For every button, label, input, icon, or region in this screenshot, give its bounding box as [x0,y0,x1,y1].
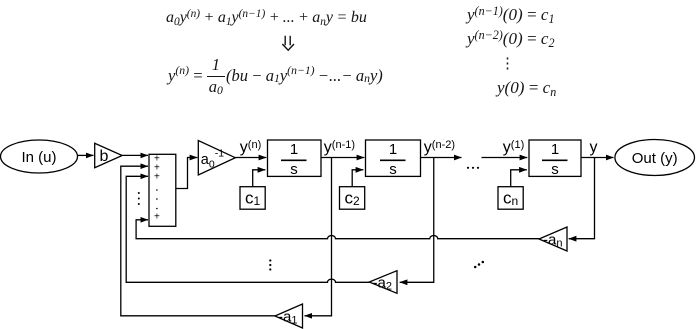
equation: y^(n) = (1/a0)(bu - a1 y^(n-1) - ... - an y) [168,57,383,95]
svg-text:-an: -an [543,232,562,250]
wire break to U3 [482,157,528,159]
gain -an [539,227,567,251]
svg-text:c2: c2 [345,188,361,208]
svg-text:-a1: -a1 [278,309,297,327]
initial condition: y(0) = cn [497,79,556,96]
chain ellipsis dots [467,167,479,169]
wire cn to U3 [511,170,527,187]
gain -a1 [275,304,303,328]
svg-text:y(n-1): y(n-1) [324,139,355,156]
svg-text:+: + [154,172,160,183]
wire -a1 to sum port 2 [121,166,275,316]
svg-text:a0-1: a0-1 [201,148,224,171]
svg-text:Out (y): Out (y) [632,150,678,167]
vertical ellipsis between feedback rows [269,259,271,270]
sum block S1 [149,153,176,226]
svg-text:+: + [154,211,160,222]
svg-text:1: 1 [389,141,397,158]
wire b to sum [122,154,148,156]
output port Out (y) [615,140,695,176]
initial condition: y^(n-2)(0) = c2 [467,30,554,47]
wire In to gain b [78,154,94,156]
svg-text:s: s [551,161,559,178]
svg-text:In (u): In (u) [21,149,56,166]
wire U1 to U2 [321,157,364,159]
vertical ellipsis between initial conditions [500,57,515,72]
IC block c1 [240,187,265,210]
wire c1 to U1 [253,170,266,187]
gain a0^-1 [198,141,235,176]
svg-text:c1: c1 [245,188,261,208]
input port In (u) [1,140,78,173]
wire U2 to break [421,157,462,159]
svg-text:1: 1 [551,141,559,158]
wire U3 to Out [581,157,614,159]
equation: a0 y^(n) + a1 y^(n-1) + ... + an y = bu [166,10,367,26]
diagonal ellipsis between feedback rows right [474,261,484,269]
svg-text:y(n-2): y(n-2) [424,139,455,156]
integrator U3 (1/s) [529,140,581,178]
wire a0^-1 to integrator U1 [235,157,266,159]
svg-text:b: b [100,148,109,165]
svg-text:s: s [389,161,397,178]
ellipsis left of sum inputs [138,192,140,205]
svg-text:cn: cn [503,188,518,208]
wire feedback tap from y^(n-2) down to gain -a2 [400,158,434,283]
wire -a2 to sum port 3 (hops over a1 vertical) [126,176,369,282]
integrator U1 (1/s) [268,140,322,178]
integrator U2 (1/s) [366,140,421,178]
wire sum to gain a0^-1 [176,158,198,189]
gain b [95,143,123,167]
IC block cn [498,187,523,210]
svg-text:y: y [590,139,598,156]
wire c2 to U2 [352,170,363,187]
double down arrow [282,36,294,50]
wire -an to sum port 4 (hops over two verticals) [136,220,539,239]
IC block c2 [340,187,365,210]
svg-text:1: 1 [290,141,298,158]
svg-text:y(1): y(1) [503,139,524,156]
gain -a2 [369,271,397,294]
svg-text:s: s [290,161,298,178]
wire feedback tap from y^(n-1) down to gain -a1 [305,158,332,316]
initial condition: y^(n-1)(0) = c1 [467,6,554,23]
svg-text:-a2: -a2 [373,275,392,293]
svg-text:y(n): y(n) [240,139,261,156]
wire feedback tap from y down to gain -an [569,158,595,239]
